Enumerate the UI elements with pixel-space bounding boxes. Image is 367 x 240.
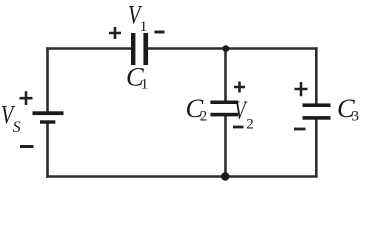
polarity minus of C3 — [294, 128, 306, 131]
capacitor C2 — [210, 101, 238, 117]
capacitor C3 — [303, 103, 331, 119]
label V2 — [234, 95, 254, 133]
wire bottom rail — [46, 175, 317, 178]
label C1 — [126, 62, 148, 93]
svg-text:S: S — [13, 119, 21, 136]
polarity plus of C2 — [234, 82, 245, 93]
wire top-right segment — [146, 47, 318, 50]
wire left upper — [46, 47, 49, 112]
polarity minus of VS — [20, 145, 34, 148]
wire right branch lower — [315, 119, 318, 177]
wire right branch upper — [315, 47, 318, 104]
svg-text:1: 1 — [141, 77, 149, 93]
svg-text:2: 2 — [200, 109, 208, 125]
polarity plus of C1 — [109, 27, 121, 39]
polarity plus of VS — [20, 91, 33, 105]
label C2 — [186, 93, 208, 125]
voltage source VS (battery) — [33, 111, 64, 123]
svg-text:2: 2 — [246, 117, 254, 133]
wire middle branch lower — [224, 116, 227, 177]
svg-text:1: 1 — [140, 19, 148, 35]
wire middle branch upper — [224, 49, 227, 102]
node junction dot top — [222, 45, 229, 52]
label V1 — [128, 0, 147, 35]
capacitor C1 — [131, 33, 148, 65]
wire top-left segment — [46, 47, 133, 50]
polarity minus of C1 — [155, 31, 165, 34]
label C3 — [337, 93, 359, 125]
polarity minus of C2 — [233, 126, 244, 129]
polarity plus of C3 — [295, 82, 308, 96]
svg-text:3: 3 — [352, 109, 360, 125]
node junction dot bottom — [221, 172, 229, 180]
label VS — [1, 100, 21, 136]
wire left lower — [46, 122, 49, 178]
